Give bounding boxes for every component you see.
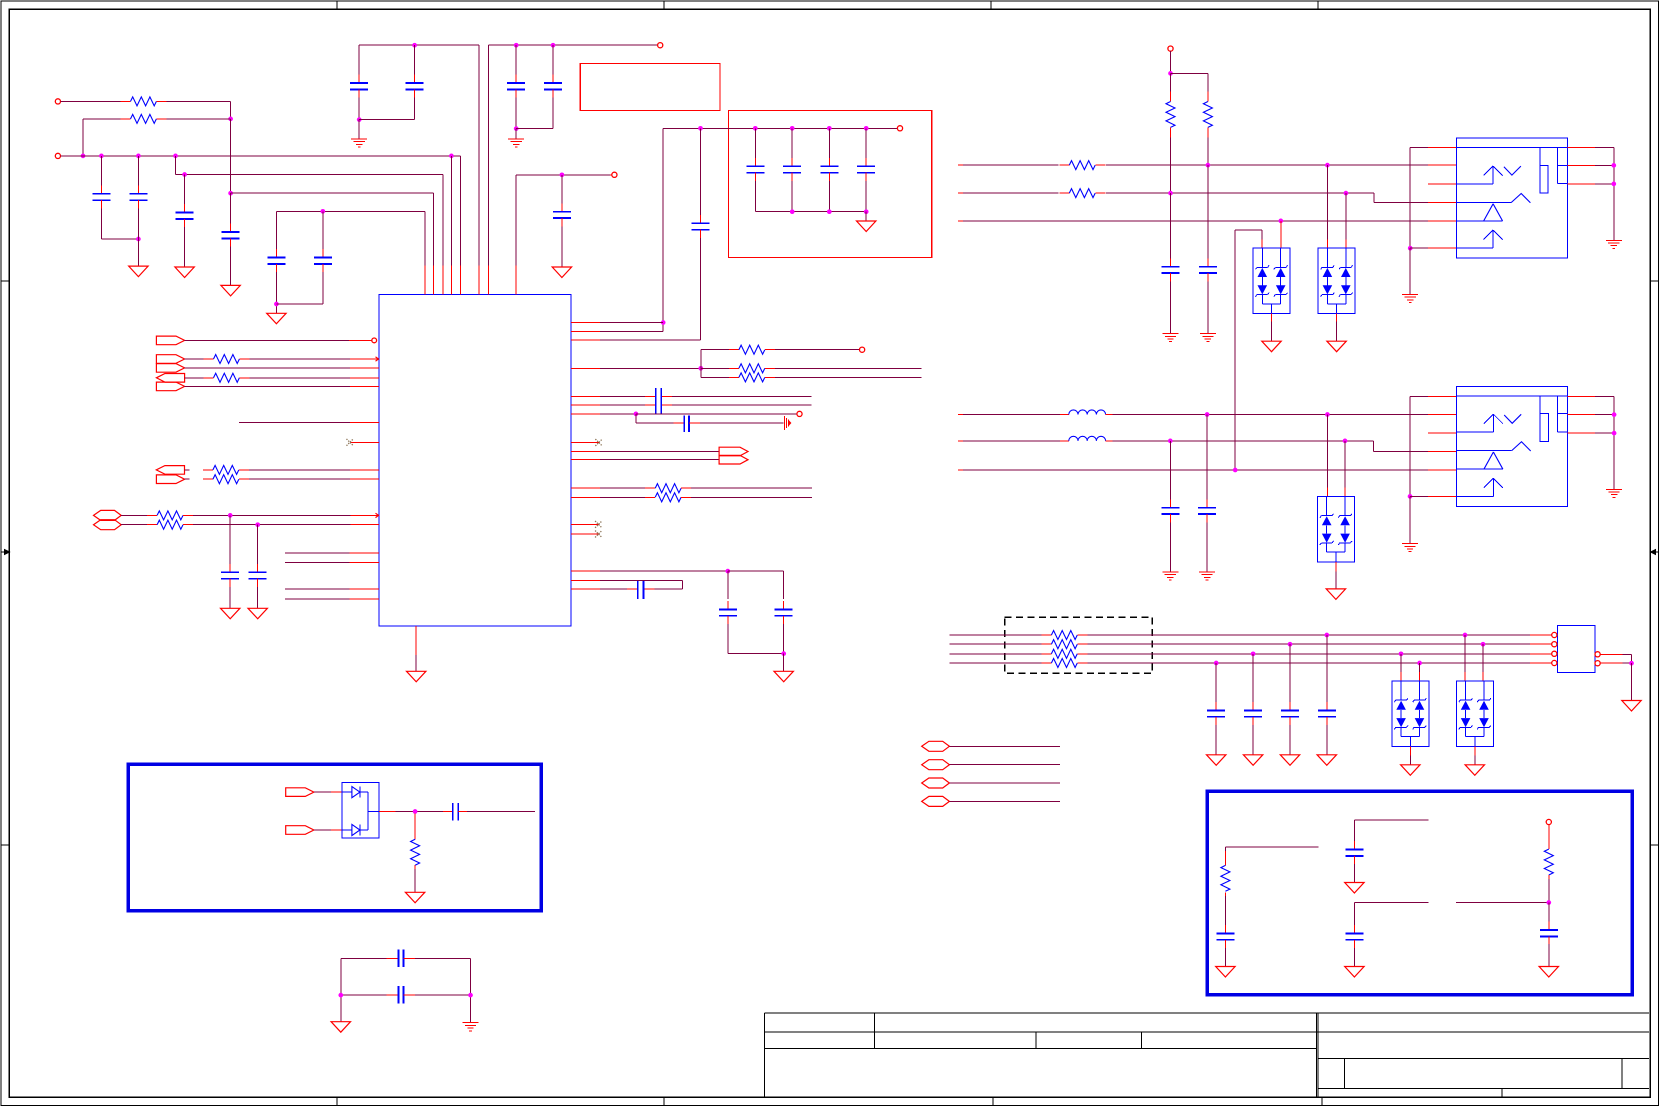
bus caps C22-C25 — [1215, 663, 1217, 702]
junction VB x553 — [551, 43, 556, 48]
junction C9 bottom — [514, 126, 519, 131]
junction W5 x561.9 — [560, 172, 565, 177]
resistor R1 — [121, 100, 131, 102]
output port chevrons — [719, 447, 748, 456]
pull-up resistor Rv2 — [1207, 73, 1209, 91]
wire W2 rail y174.5 — [175, 156, 177, 175]
junction W4 x322.8 — [320, 209, 325, 214]
IC U1 top pin stubs — [424, 265, 426, 294]
capacitor C1 — [100, 156, 102, 186]
jack1 right side wires to ground — [1567, 147, 1595, 149]
series capacitor C21 — [443, 811, 453, 813]
IC right pin row2 — [571, 330, 600, 332]
wire VCC drop x700.5 with capacitor C12 to IC pin row3 — [700, 128, 702, 215]
dual diode D1 — [342, 782, 379, 838]
hex port L10 with resistor — [94, 510, 122, 520]
wire R1 to corner — [167, 100, 231, 102]
wire R1 input — [61, 100, 121, 102]
diode output net — [379, 811, 396, 813]
capacitor C6 — [322, 211, 324, 249]
hex port L11 with resistor — [94, 520, 122, 530]
IC right pin row4 net — [571, 367, 600, 369]
capacitor C3 — [184, 175, 186, 205]
series cap plates rows5-6 — [655, 388, 657, 414]
capacitor C2 — [137, 156, 139, 186]
earth ground C7C8 — [358, 120, 360, 139]
vertical branch x700.8 — [700, 350, 702, 378]
power rail VA y45.2 left segment — [359, 44, 479, 46]
wire B2 jack2 row4 — [958, 440, 963, 442]
wire VA drop to IC pin x478.8 — [478, 45, 480, 265]
wire L6 — [239, 422, 350, 424]
IC U1 bottom pin stub — [415, 626, 417, 655]
capacitor C31 on wire A2 — [1206, 415, 1208, 500]
capacitor C20 — [257, 525, 259, 564]
TVS array D5 — [1326, 165, 1328, 239]
ground C17C18 — [783, 654, 785, 672]
power rail VB y45.2 right segment — [488, 44, 657, 46]
wire W4 rail y211.3 — [276, 210, 425, 212]
ground C2 — [129, 266, 148, 277]
border zone ticks right — [1650, 280, 1659, 282]
port L9 with resistor — [156, 475, 184, 484]
pull-up resistor Rv1 — [1170, 73, 1172, 91]
IC U1 body — [379, 294, 571, 626]
jack2 right side wires to ground — [1568, 395, 1595, 397]
wire VB drop to IC pin x488.4 — [487, 45, 489, 265]
port MIC2 — [286, 826, 314, 835]
TVS array D4 left link — [1235, 229, 1262, 231]
jack1 pin1/pin6 ground link — [1409, 148, 1411, 249]
junction W1 x101 — [99, 154, 104, 159]
no-connect IC right row 442.5 — [571, 442, 599, 444]
port IN1 row L1 — [156, 336, 184, 345]
wire W3 rail y193.2 — [230, 119, 232, 193]
wire corner down to R2 node — [230, 101, 232, 119]
left vertical + ground — [340, 958, 342, 1021]
blue frame audio bias — [1207, 791, 1632, 994]
capacitor C28 on wire B — [1170, 193, 1172, 258]
wires W1-W4 drops into IC top pins — [450, 156, 452, 265]
capacitor C9 — [515, 45, 517, 74]
rail VCC y128.3 — [663, 127, 897, 129]
resistor Ra to terminal — [701, 349, 729, 351]
jack J5 — [1457, 386, 1568, 506]
terminal J1 top-left — [55, 99, 60, 104]
ground C11 — [552, 267, 571, 278]
wires L12-L15 — [285, 552, 350, 554]
branch2 cap to ground — [1354, 819, 1428, 821]
terminal pull-up supply — [1168, 46, 1173, 51]
TVS array D3 — [1464, 635, 1466, 672]
capacitor C11 — [561, 175, 563, 204]
bus junctions — [1324, 633, 1329, 638]
IC right pin row5 with series cap — [571, 396, 600, 398]
ground C3 — [175, 267, 194, 278]
no-connect left L7 — [350, 441, 379, 443]
ground R3 — [405, 892, 424, 903]
capacitor C4 — [230, 193, 232, 224]
IC bottom ground — [415, 655, 417, 671]
capacitor C18 — [783, 601, 785, 609]
TVS array D6 — [1326, 415, 1328, 488]
TVS array D4 — [1280, 221, 1282, 248]
capacitor C5 — [275, 211, 277, 249]
junction W1 x175 — [173, 154, 178, 159]
border center arrow left — [3, 550, 10, 555]
capacitor C30 on wire B2 — [1169, 441, 1171, 499]
junction VB x516.2 — [514, 43, 519, 48]
IC right rows 8-9 to output port — [571, 451, 600, 453]
wire B jack1 row4 — [958, 192, 963, 194]
jack2 pin1/pin6 ground link — [1409, 396, 1411, 496]
port L8 with resistor — [156, 466, 184, 475]
branch1 resistor-cap — [1225, 846, 1318, 848]
junction W1 at x83 — [81, 154, 86, 159]
wire A2 jack2 row2 — [958, 414, 963, 416]
port IN2 row L2 with resistor — [156, 355, 184, 364]
ground C4 — [221, 285, 240, 296]
jack1 pin3 stub — [1428, 183, 1456, 185]
terminal J2 — [55, 153, 60, 158]
dashed option box — [1005, 617, 1153, 673]
capacitor C29 on wire A — [1207, 165, 1209, 258]
rail caps bottom y211.7 — [755, 211, 866, 213]
net W5 with terminal to IC pin x516.2 — [516, 174, 610, 176]
IC right pin row7 net to terminal — [571, 413, 600, 415]
capacitor C19 — [229, 515, 231, 564]
junction W2 x184.6 — [182, 172, 187, 177]
terminal VCC — [897, 126, 902, 131]
bus wires with resistors — [949, 634, 1041, 636]
capacitor C7 — [358, 45, 360, 74]
wire R2 left to corner — [83, 118, 121, 120]
wire W1 horizontal rail y156 — [61, 155, 461, 157]
crystal cap loop top wire — [341, 957, 387, 959]
capacitor C17 — [727, 571, 729, 599]
junction row4 — [698, 366, 703, 371]
junction VA x414.6 — [412, 43, 417, 48]
red box empty annotation — [580, 64, 720, 111]
row7 branch with series cap to bar ground — [635, 414, 637, 423]
crystal cap loop bottom wire — [341, 994, 387, 996]
ground C5 — [267, 313, 286, 324]
bias resistor R3 vertical — [414, 814, 416, 840]
jack2 pin3 stub — [1428, 432, 1457, 434]
port IN3 row L3 — [156, 364, 184, 373]
hex ports group — [922, 741, 950, 751]
connector J3 right pins — [1595, 652, 1600, 657]
TVS array D2 — [1400, 654, 1402, 672]
wire C jack1 row5 — [958, 220, 963, 222]
resistor Rc — [701, 376, 729, 378]
border zone ticks top — [336, 1, 338, 9]
IC right pin row1 — [571, 322, 600, 324]
branch4 terminal resistor cap — [1546, 819, 1551, 824]
IC right rows 15-16 crystal loop with series cap — [571, 580, 600, 582]
title block — [765, 1012, 1650, 1014]
jack J4 — [1456, 138, 1567, 258]
IC right pin row3 — [571, 339, 600, 341]
resistor Rb — [701, 367, 729, 369]
port MIC1 — [286, 788, 314, 797]
port IN5 row L5 — [156, 382, 184, 391]
junction C5 bottom — [274, 302, 279, 307]
IC right rows 10-11 through resistors — [571, 487, 600, 489]
right vertical + earth ground — [470, 958, 472, 1022]
junction W1 x138 — [136, 154, 141, 159]
junction pin1 — [661, 320, 666, 325]
wire C2 jack2 row5 — [958, 469, 963, 471]
border zone ticks bottom — [336, 1097, 338, 1106]
junction C2 bottom — [136, 237, 141, 242]
IC right row14 net with caps C17 C18 — [571, 570, 600, 572]
border center arrow right — [1651, 550, 1658, 555]
wire A jack1 row2 — [958, 164, 963, 166]
red box bypass caps — [729, 110, 932, 257]
bar ground row7 — [783, 416, 785, 430]
border zone ticks left — [1, 280, 9, 282]
port IN4 row L4 with resistor — [156, 374, 184, 383]
blue frame mic input — [128, 764, 541, 911]
junction R2 right node — [228, 117, 233, 122]
connector J3 — [1557, 626, 1595, 673]
ground red box caps — [865, 212, 867, 221]
capacitor C8 — [414, 45, 416, 74]
wire VCC left drop to IC pins 1-2 — [662, 128, 664, 331]
IC right pin row6 with series cap — [571, 404, 600, 406]
terminal VB — [658, 43, 663, 48]
junction C7 bottom — [357, 117, 362, 122]
no-connect IC right rows 12-13 — [571, 523, 598, 525]
branch3 cap to ground — [1354, 902, 1428, 904]
earth ground C9C10 — [515, 129, 517, 139]
capacitors C13 C14 C15 C16 — [754, 128, 756, 158]
junction W1 x451 — [449, 154, 454, 159]
resistor R2 — [121, 118, 131, 120]
capacitor C10 — [552, 45, 554, 74]
